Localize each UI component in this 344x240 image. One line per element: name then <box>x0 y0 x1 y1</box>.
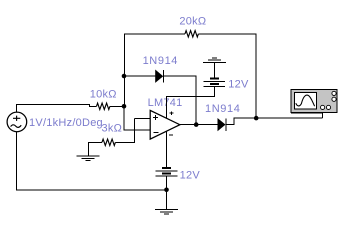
node A summing junction <box>122 104 127 109</box>
svg-text:1N914: 1N914 <box>143 55 178 67</box>
op-amp U1 LM741 triangle <box>150 110 180 139</box>
svg-text:1N914: 1N914 <box>205 103 240 115</box>
node scope net junction <box>254 116 259 121</box>
diode D2 1N914 <box>218 119 226 131</box>
node ground junction <box>164 188 169 193</box>
op-amp inverting input mark <box>154 132 159 134</box>
wire top feedback left segment <box>124 33 185 35</box>
node output junction <box>194 122 199 127</box>
resistor R1 10kOhm <box>97 103 110 109</box>
op-amp V- power pin mark <box>169 134 173 136</box>
wire R3 left lead to ground G1 <box>89 142 102 156</box>
node diode branch junction <box>122 74 127 79</box>
svg-text:1V/1kHz/0Deg: 1V/1kHz/0Deg <box>29 117 103 129</box>
diode D1 1N914 <box>156 70 164 82</box>
AC source V1 <box>7 112 27 132</box>
svg-text:LM741: LM741 <box>148 97 183 109</box>
ground G3 (bottom center) <box>155 209 178 214</box>
wire source bottom return rail <box>17 132 167 190</box>
wire scope pin <box>322 112 324 118</box>
wire D1 cathode down to output node <box>164 76 197 124</box>
wire V+ power pin to battery V2 <box>167 87 215 118</box>
svg-text:20kΩ: 20kΩ <box>179 15 206 27</box>
wire source top lead to R1 <box>17 105 97 113</box>
wire noninverting input from R3 riser <box>135 117 151 119</box>
op-amp noninverting input mark <box>153 115 158 120</box>
ground G1 (3k branch) <box>77 156 100 161</box>
op-amp V+ power pin mark <box>170 111 174 115</box>
svg-text:10kΩ: 10kΩ <box>90 89 117 101</box>
ground G2 (rotated 180, above V2) <box>203 58 226 63</box>
wire ground lead G3 <box>166 190 168 210</box>
wire R1 to input node <box>110 105 124 107</box>
resistor R3 3kOhm <box>102 139 115 145</box>
svg-text:3kΩ: 3kΩ <box>102 123 123 135</box>
battery V3 12V negative supply <box>156 168 178 176</box>
wire op-amp output <box>180 124 218 126</box>
wire top feedback right segment <box>198 34 256 118</box>
wire battery V2 top lead <box>214 62 216 78</box>
battery V2 12V positive supply <box>204 78 226 86</box>
resistor R2 20kOhm <box>185 31 198 37</box>
wire R3 to noninverting riser <box>115 118 134 142</box>
wire D2 cathode jog up to scope net <box>226 118 323 125</box>
wire battery V3 to ground node <box>166 177 168 190</box>
oscilloscope XSC1 icon <box>291 90 337 113</box>
svg-text:12V: 12V <box>180 169 201 181</box>
wire inverting input from node A <box>124 106 150 130</box>
wire left feedback vertical <box>124 34 126 107</box>
wire V- power pin to battery V3 <box>166 131 168 167</box>
svg-text:12V: 12V <box>228 79 249 91</box>
wire node to diode D1 <box>124 75 156 77</box>
